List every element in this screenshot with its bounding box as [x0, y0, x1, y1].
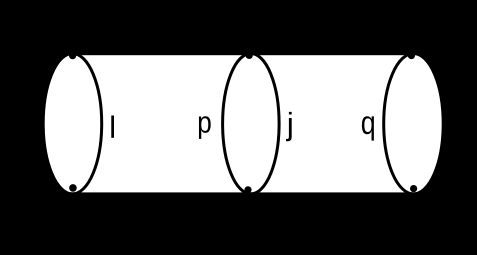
left end circle: [43, 53, 102, 193]
node dot top-middle: [246, 52, 253, 59]
label q: [362, 116, 374, 140]
node dot top-left: [69, 52, 76, 59]
node dot bottom-left: [69, 184, 77, 192]
node dot top-right: [408, 52, 415, 59]
bottom mask band: [0, 192, 477, 255]
node dot bottom-right: [410, 185, 417, 192]
cylinder body: [73, 53, 414, 194]
right end circle: [384, 53, 444, 193]
label p: [199, 116, 211, 139]
label j: [286, 112, 292, 141]
node dot bottom-middle: [244, 186, 251, 193]
label l: [111, 115, 114, 137]
middle circle: [223, 53, 280, 193]
top mask band: [0, 0, 477, 55]
